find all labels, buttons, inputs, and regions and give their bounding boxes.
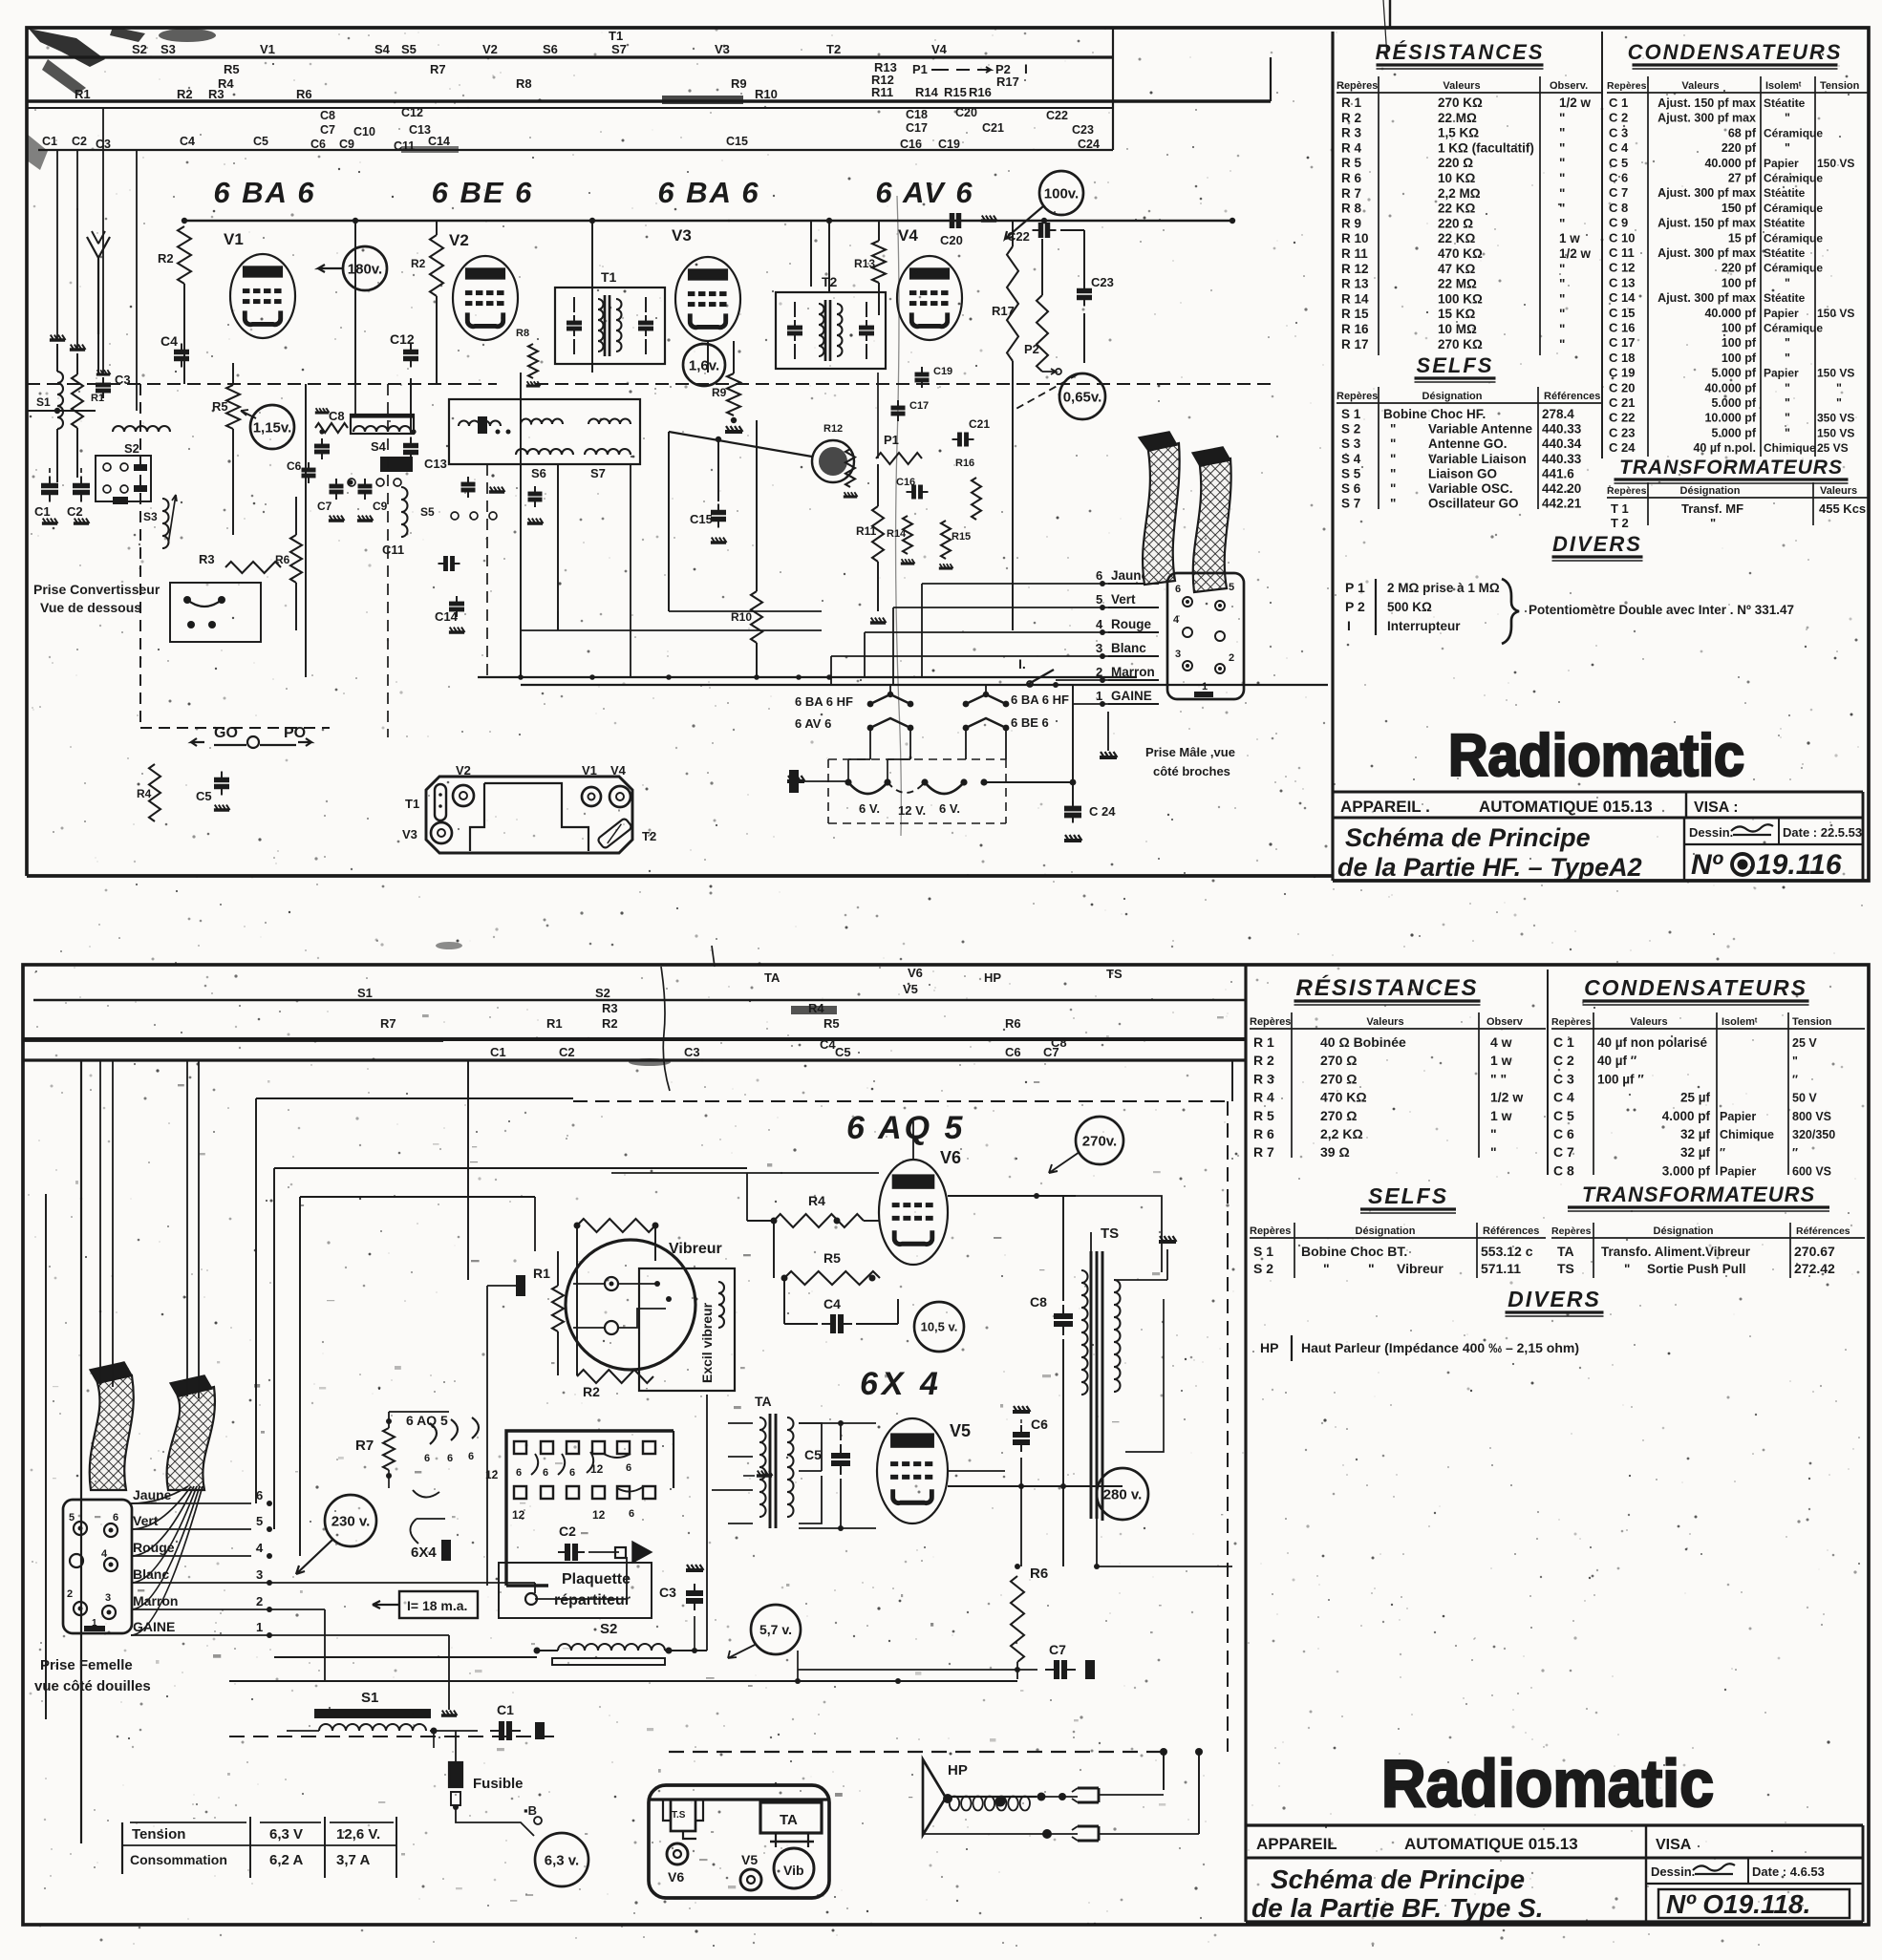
svg-text:40.000 pf: 40.000 pf	[1704, 157, 1756, 170]
svg-text:DIVERS: DIVERS	[1508, 1287, 1601, 1311]
svg-text:R1: R1	[546, 1016, 563, 1031]
svg-text:Dessin.: Dessin.	[1651, 1864, 1695, 1879]
svg-text:C2: C2	[67, 504, 83, 519]
svg-text:6 AV 6: 6 AV 6	[795, 716, 831, 731]
svg-text:T1: T1	[405, 797, 419, 811]
svg-text:Chimique: Chimique	[1764, 441, 1816, 455]
svg-text:": "	[1785, 336, 1790, 350]
svg-text:C19: C19	[933, 366, 952, 377]
svg-text:C1: C1	[34, 504, 51, 519]
svg-text:Marron: Marron	[1111, 665, 1155, 679]
svg-text:230 v.: 230 v.	[331, 1513, 371, 1529]
svg-text:27 pf: 27 pf	[1728, 172, 1757, 185]
svg-text:C4: C4	[160, 333, 178, 349]
svg-text:25 VS: 25 VS	[1817, 441, 1849, 455]
svg-text:Stéatite: Stéatite	[1764, 291, 1806, 305]
svg-text:600 VS: 600 VS	[1792, 1164, 1831, 1178]
svg-text:Valeurs: Valeurs	[1443, 80, 1480, 92]
svg-text:Valeurs: Valeurs	[1681, 80, 1719, 92]
svg-text:R 3: R 3	[1341, 126, 1362, 140]
svg-text:40 Ω Bobinée: 40 Ω Bobinée	[1320, 1034, 1406, 1050]
svg-text:6 BA 6: 6 BA 6	[213, 176, 315, 209]
svg-text:5.000 pf: 5.000 pf	[1711, 426, 1756, 439]
svg-text:S2: S2	[132, 42, 147, 56]
svg-text:R5: R5	[224, 62, 240, 76]
svg-text:150 VS: 150 VS	[1817, 367, 1854, 380]
svg-text:100v.: 100v.	[1044, 185, 1079, 202]
svg-text:S1: S1	[361, 1690, 378, 1706]
svg-text:C5: C5	[196, 789, 212, 803]
svg-text:1/2 w: 1/2 w	[1490, 1090, 1523, 1105]
svg-text:R 7: R 7	[1341, 186, 1361, 201]
svg-text:": "	[1836, 396, 1842, 410]
svg-text:R 6: R 6	[1341, 171, 1362, 185]
svg-text:T2: T2	[826, 42, 841, 56]
svg-text:270 Ω: 270 Ω	[1320, 1108, 1357, 1123]
svg-text:5.000 pf: 5.000 pf	[1711, 396, 1756, 410]
svg-text:I: I	[1024, 61, 1028, 76]
svg-text:C5: C5	[835, 1045, 851, 1059]
svg-text:V4: V4	[898, 226, 918, 245]
svg-text:R6: R6	[1030, 1566, 1048, 1582]
svg-text:Céramique: Céramique	[1764, 231, 1823, 245]
svg-text:40.000 pf: 40.000 pf	[1704, 307, 1756, 320]
svg-text:2: 2	[1229, 652, 1234, 664]
svg-text:R 13: R 13	[1341, 277, 1369, 291]
svg-text:V1: V1	[582, 763, 597, 778]
svg-text:": "	[1785, 396, 1790, 410]
svg-text:Oscillateur GO: Oscillateur GO	[1428, 497, 1519, 511]
svg-text:P1: P1	[912, 62, 928, 76]
svg-text:V3: V3	[402, 827, 417, 842]
svg-text:": "	[1390, 481, 1396, 496]
svg-text:Radiomatic: Radiomatic	[1448, 723, 1744, 789]
svg-text:R 1: R 1	[1341, 96, 1362, 110]
svg-text:C8: C8	[1030, 1294, 1047, 1310]
svg-text:15 KΩ: 15 KΩ	[1438, 307, 1476, 321]
svg-text:1: 1	[1096, 689, 1102, 703]
svg-text:553.12 c: 553.12 c	[1481, 1244, 1533, 1259]
svg-text:800 VS: 800 VS	[1792, 1110, 1831, 1123]
svg-text:220 Ω: 220 Ω	[1438, 216, 1473, 230]
svg-text:": "	[1792, 1055, 1798, 1068]
svg-text:280 v.: 280 v.	[1103, 1486, 1143, 1502]
svg-text:C24: C24	[1078, 138, 1100, 151]
svg-text:Observ: Observ	[1486, 1016, 1524, 1028]
svg-text:Blanc: Blanc	[1111, 641, 1146, 655]
svg-text:Valeurs: Valeurs	[1820, 485, 1857, 497]
svg-text:C 1: C 1	[1609, 96, 1628, 110]
svg-text:R15: R15	[944, 85, 967, 99]
svg-text:350 VS: 350 VS	[1817, 412, 1854, 425]
svg-text:440.33: 440.33	[1542, 422, 1582, 437]
svg-text:Repères: Repères	[1250, 1016, 1291, 1028]
svg-text:S 5: S 5	[1341, 466, 1361, 480]
svg-text:6: 6	[256, 1488, 263, 1502]
svg-text:4: 4	[256, 1541, 264, 1555]
svg-text:1,15v.: 1,15v.	[253, 419, 292, 436]
svg-text:Liaison GO: Liaison GO	[1428, 466, 1497, 480]
svg-text:1 w: 1 w	[1490, 1108, 1512, 1123]
svg-text:C9: C9	[373, 500, 388, 513]
svg-text:C21: C21	[982, 121, 1004, 135]
svg-text:1 KΩ (facultatif): 1 KΩ (facultatif)	[1438, 140, 1534, 155]
svg-text:R6: R6	[275, 553, 290, 566]
svg-text:Références: Références	[1544, 391, 1600, 402]
svg-text:19.116: 19.116	[1756, 849, 1842, 881]
svg-text:S7: S7	[590, 466, 606, 480]
svg-text:100 pf: 100 pf	[1722, 352, 1757, 365]
svg-text:1 w: 1 w	[1490, 1053, 1512, 1068]
svg-text:R 4: R 4	[1341, 140, 1362, 155]
svg-text:vue côté douilles: vue côté douilles	[34, 1678, 151, 1694]
svg-text:Variable OSC.: Variable OSC.	[1428, 481, 1513, 496]
svg-text:Prise Convertisseur: Prise Convertisseur	[33, 582, 160, 597]
svg-text:Date : 4.6.53: Date : 4.6.53	[1752, 1864, 1825, 1879]
svg-text:C 5: C 5	[1609, 156, 1628, 170]
svg-text:I= 18 m.a.: I= 18 m.a.	[407, 1598, 467, 1613]
svg-text:TA: TA	[764, 970, 781, 985]
svg-text:": "	[1624, 1262, 1630, 1276]
svg-text:S 3: S 3	[1341, 437, 1361, 451]
svg-text:C 6: C 6	[1553, 1126, 1574, 1141]
svg-text:C7: C7	[317, 500, 332, 513]
svg-text:5,7 v.: 5,7 v.	[759, 1622, 792, 1637]
svg-text:C19: C19	[938, 138, 960, 151]
svg-text:68 pf: 68 pf	[1728, 126, 1757, 139]
svg-text:C3: C3	[684, 1045, 700, 1059]
svg-text:C 10: C 10	[1609, 230, 1635, 245]
svg-text:270.67: 270.67	[1794, 1244, 1835, 1259]
svg-text:C 6: C 6	[1609, 171, 1628, 185]
svg-text:R1: R1	[91, 393, 104, 404]
svg-text:C20: C20	[955, 106, 977, 119]
svg-text:Schéma de Principe: Schéma de Principe	[1345, 823, 1591, 852]
svg-text:S1: S1	[36, 395, 51, 409]
svg-text:": "	[1390, 466, 1396, 480]
svg-text:3: 3	[1096, 641, 1102, 655]
svg-text:V6: V6	[668, 1869, 684, 1885]
svg-text:C12: C12	[390, 331, 415, 347]
svg-text:Céramique: Céramique	[1764, 322, 1823, 335]
svg-text:S5: S5	[420, 505, 435, 519]
svg-text:6 V.: 6 V.	[859, 801, 880, 816]
svg-text:": "	[1559, 337, 1565, 352]
svg-text:Repères: Repères	[1607, 485, 1647, 497]
svg-text:Désignation: Désignation	[1422, 391, 1483, 402]
svg-text:455 Kcs: 455 Kcs	[1819, 501, 1866, 516]
svg-text:R 15: R 15	[1341, 307, 1369, 321]
svg-text:C 21: C 21	[1609, 395, 1635, 410]
svg-text:V5: V5	[741, 1852, 758, 1867]
svg-text:TS: TS	[1101, 1225, 1119, 1242]
svg-text:Consommation: Consommation	[130, 1852, 227, 1867]
svg-text:C8: C8	[329, 409, 345, 423]
svg-text:2: 2	[256, 1594, 263, 1608]
svg-text:C5: C5	[804, 1447, 822, 1462]
svg-text:Schéma de Principe: Schéma de Principe	[1271, 1864, 1525, 1894]
svg-text:Repères: Repères	[1551, 1225, 1592, 1237]
svg-text:S4: S4	[374, 42, 391, 56]
svg-text:R 5: R 5	[1341, 156, 1362, 170]
svg-text:1 w: 1 w	[1559, 231, 1580, 245]
svg-text:P2: P2	[1024, 342, 1039, 356]
svg-text:440.33: 440.33	[1542, 452, 1582, 466]
svg-text:VISA :: VISA :	[1694, 799, 1739, 816]
svg-text:APPAREIL .: APPAREIL .	[1340, 798, 1430, 816]
svg-text:R 16: R 16	[1341, 322, 1369, 336]
svg-text:S6: S6	[543, 42, 558, 56]
svg-text:Bobine Choc BT.: Bobine Choc BT.	[1301, 1244, 1407, 1259]
svg-text:R3: R3	[602, 1001, 618, 1015]
svg-text:Références: Références	[1796, 1225, 1850, 1237]
svg-text:R2: R2	[158, 251, 174, 266]
svg-text:C 14: C 14	[1609, 290, 1636, 305]
svg-text:6: 6	[447, 1453, 453, 1464]
svg-text:S 4: S 4	[1341, 452, 1361, 466]
svg-text:100 KΩ: 100 KΩ	[1438, 291, 1483, 306]
svg-text:R4: R4	[808, 1193, 825, 1208]
svg-text:Repères: Repères	[1551, 1016, 1592, 1028]
svg-text:5: 5	[1096, 592, 1102, 607]
svg-text:1: 1	[256, 1620, 263, 1634]
svg-text:R1: R1	[533, 1266, 550, 1281]
svg-text:R 9: R 9	[1341, 216, 1361, 230]
svg-text:100 µf ″: 100 µf ″	[1597, 1072, 1644, 1086]
svg-text:C 24: C 24	[1609, 440, 1636, 455]
svg-text:R7: R7	[430, 62, 446, 76]
svg-text:Variable Antenne: Variable Antenne	[1428, 422, 1533, 437]
svg-text:6: 6	[1096, 568, 1102, 583]
svg-text:C 22: C 22	[1609, 411, 1635, 425]
svg-text:T.S: T.S	[672, 1810, 686, 1821]
svg-text:Valeurs: Valeurs	[1630, 1016, 1667, 1028]
svg-text:R16: R16	[969, 85, 992, 99]
svg-text:5.000 pf: 5.000 pf	[1711, 367, 1756, 380]
svg-text:C 3: C 3	[1553, 1071, 1574, 1086]
svg-text:TA: TA	[1557, 1244, 1574, 1259]
svg-text:R 2: R 2	[1253, 1053, 1274, 1068]
svg-text:25 µf: 25 µf	[1680, 1091, 1711, 1105]
svg-text:R15: R15	[952, 531, 971, 543]
svg-text:2 MΩ prise à 1 MΩ: 2 MΩ prise à 1 MΩ	[1387, 581, 1500, 595]
svg-text:C16: C16	[896, 477, 915, 488]
svg-text:Désignation: Désignation	[1680, 485, 1741, 497]
svg-text:S 6: S 6	[1341, 481, 1361, 496]
svg-text:6,3 V: 6,3 V	[269, 1826, 303, 1843]
svg-text:6 BA 6: 6 BA 6	[657, 176, 759, 209]
svg-text:Ajust. 150 pf max: Ajust. 150 pf max	[1657, 96, 1756, 110]
svg-text:R3: R3	[208, 87, 225, 101]
svg-text:C14: C14	[428, 135, 450, 148]
svg-text:Transfo. Aliment.Vibreur: Transfo. Aliment.Vibreur	[1601, 1245, 1751, 1259]
svg-text:": "	[1785, 412, 1790, 425]
svg-text:côté broches: côté broches	[1153, 764, 1230, 778]
svg-text:C12: C12	[401, 106, 423, 119]
svg-text:C 23: C 23	[1609, 425, 1635, 439]
svg-text:Céramique: Céramique	[1764, 202, 1823, 215]
svg-text:": "	[1390, 422, 1396, 437]
svg-text:1,5 KΩ: 1,5 KΩ	[1438, 126, 1479, 140]
svg-text:C22: C22	[1046, 109, 1068, 122]
svg-text:3: 3	[1175, 649, 1181, 660]
svg-text:12,6 V.: 12,6 V.	[336, 1826, 380, 1843]
svg-text:6: 6	[629, 1508, 634, 1520]
svg-text:": "	[1785, 426, 1790, 439]
svg-text:C7: C7	[1043, 1045, 1059, 1059]
svg-text:10 KΩ: 10 KΩ	[1438, 171, 1476, 185]
svg-text:TRANSFORMATEURS: TRANSFORMATEURS	[1619, 457, 1843, 479]
svg-text:C 2: C 2	[1553, 1053, 1574, 1068]
svg-text:R2: R2	[583, 1384, 600, 1399]
svg-text:S7: S7	[611, 42, 627, 56]
svg-text:100 pf: 100 pf	[1722, 322, 1757, 335]
svg-text:5: 5	[1229, 582, 1234, 593]
svg-text:C2: C2	[559, 1045, 575, 1059]
svg-text:C4: C4	[823, 1296, 841, 1311]
svg-text:″: ″	[1792, 1073, 1798, 1086]
svg-text:1/2 w: 1/2 w	[1559, 96, 1592, 110]
svg-text:C 13: C 13	[1609, 275, 1635, 289]
svg-text:P 2: P 2	[1345, 599, 1365, 614]
svg-text:Transf. MF: Transf. MF	[1681, 501, 1743, 516]
svg-text:1/2 w: 1/2 w	[1559, 246, 1592, 261]
svg-text:3: 3	[105, 1592, 111, 1604]
svg-text:Désignation: Désignation	[1356, 1225, 1416, 1237]
svg-text:32 µf: 32 µf	[1680, 1145, 1711, 1160]
svg-text:V2: V2	[456, 763, 471, 778]
svg-text:C 9: C 9	[1609, 216, 1628, 230]
svg-text:6X4: 6X4	[411, 1545, 437, 1561]
svg-text:C 5: C 5	[1553, 1108, 1574, 1123]
svg-text:": "	[1559, 322, 1565, 336]
svg-text:AUTOMATIQUE 015.13: AUTOMATIQUE 015.13	[1479, 798, 1653, 816]
svg-text:C17: C17	[906, 121, 928, 135]
svg-text:": "	[1785, 112, 1790, 125]
svg-text:C15: C15	[690, 512, 713, 526]
svg-text:442.21: 442.21	[1542, 497, 1582, 511]
svg-text:R17: R17	[996, 75, 1019, 89]
svg-text:Chimique: Chimique	[1720, 1128, 1774, 1141]
svg-text:DIVERS: DIVERS	[1552, 532, 1642, 556]
svg-text:R4: R4	[137, 787, 152, 800]
svg-text:": "	[1559, 291, 1565, 306]
svg-text:": "	[1559, 307, 1565, 321]
svg-text:150 VS: 150 VS	[1817, 157, 1854, 170]
svg-text:C10: C10	[353, 125, 375, 138]
svg-text:Dessin.: Dessin.	[1689, 825, 1733, 840]
svg-text:C23: C23	[1091, 275, 1114, 289]
svg-text:Plaquette: Plaquette	[562, 1571, 631, 1587]
svg-text:R 2: R 2	[1341, 111, 1361, 125]
svg-text:": "	[1559, 186, 1565, 201]
svg-text:C 8: C 8	[1553, 1162, 1574, 1178]
svg-text:150 VS: 150 VS	[1817, 426, 1854, 439]
svg-text:6 BA 6 HF: 6 BA 6 HF	[1011, 692, 1069, 707]
svg-text:Tension: Tension	[1820, 80, 1860, 92]
svg-text:GO: GO	[214, 725, 238, 741]
svg-text:APPAREIL: APPAREIL	[1256, 1835, 1337, 1853]
svg-text:C22: C22	[1007, 229, 1030, 244]
svg-text:Stéatite: Stéatite	[1764, 246, 1806, 260]
svg-text:6 AQ 5: 6 AQ 5	[406, 1413, 448, 1428]
svg-text:C13: C13	[424, 457, 447, 471]
svg-text:270 Ω: 270 Ω	[1320, 1071, 1357, 1086]
svg-text:C14: C14	[435, 609, 459, 624]
svg-text:Papier: Papier	[1764, 157, 1799, 170]
svg-text:Antenne GO.: Antenne GO.	[1428, 437, 1508, 451]
svg-text:6: 6	[626, 1462, 631, 1474]
svg-text:S2: S2	[124, 441, 139, 456]
svg-text:": "	[1323, 1261, 1330, 1276]
svg-text:150 pf: 150 pf	[1722, 202, 1757, 215]
svg-text:Ajust. 300 pf max: Ajust. 300 pf max	[1657, 291, 1756, 305]
svg-text:C4: C4	[820, 1037, 836, 1052]
svg-text:RÉSISTANCES: RÉSISTANCES	[1296, 974, 1479, 1001]
svg-text:2,2 KΩ: 2,2 KΩ	[1320, 1126, 1363, 1141]
svg-text:C1: C1	[490, 1045, 506, 1059]
svg-text:R10: R10	[755, 87, 778, 101]
svg-text:22 MΩ: 22 MΩ	[1438, 277, 1477, 291]
svg-text:6: 6	[424, 1453, 430, 1464]
svg-text:220 Ω: 220 Ω	[1438, 156, 1473, 170]
svg-text:V3: V3	[672, 226, 692, 245]
svg-text:Blanc: Blanc	[133, 1566, 169, 1582]
svg-text:": "	[1490, 1126, 1497, 1141]
svg-text:Fusible: Fusible	[473, 1776, 524, 1792]
svg-text:Radiomatic: Radiomatic	[1381, 1746, 1714, 1821]
svg-text:Nº O19.118.: Nº O19.118.	[1666, 1889, 1810, 1919]
svg-text:C 1: C 1	[1553, 1034, 1574, 1050]
svg-text:▪B: ▪B	[524, 1803, 537, 1818]
svg-text:Ajust. 150 pf max: Ajust. 150 pf max	[1657, 217, 1756, 230]
svg-text:HP: HP	[984, 970, 1001, 985]
svg-text:Date : 22.5.53: Date : 22.5.53	[1783, 825, 1862, 840]
svg-text:Jaune: Jaune	[133, 1487, 172, 1502]
svg-text:Isolemᵗ: Isolemᵗ	[1765, 80, 1802, 92]
svg-text:6: 6	[516, 1467, 522, 1479]
svg-text:C2: C2	[72, 135, 87, 148]
svg-text:R11: R11	[856, 524, 877, 538]
svg-text:R 3: R 3	[1253, 1071, 1274, 1086]
svg-text:Repères: Repères	[1607, 80, 1647, 92]
svg-text:R6: R6	[296, 87, 312, 101]
svg-text:12 V.: 12 V.	[898, 803, 926, 818]
svg-text:Papier: Papier	[1764, 367, 1799, 380]
svg-text:3,7 A: 3,7 A	[336, 1852, 370, 1868]
svg-text:Isolemᵗ: Isolemᵗ	[1722, 1016, 1758, 1028]
svg-text:": "	[1559, 140, 1565, 155]
svg-text:R8: R8	[516, 328, 529, 339]
svg-text:220 pf: 220 pf	[1722, 262, 1757, 275]
svg-text:": "	[1490, 1144, 1497, 1160]
svg-text:6: 6	[569, 1467, 575, 1479]
svg-text:Prise Mâle ,vue: Prise Mâle ,vue	[1145, 745, 1235, 759]
svg-text:C2: C2	[559, 1523, 576, 1539]
svg-text:C4: C4	[180, 135, 195, 148]
svg-text:Variable Liaison: Variable Liaison	[1428, 452, 1527, 466]
svg-text:C 16: C 16	[1609, 321, 1635, 335]
svg-text:C 4: C 4	[1609, 140, 1629, 155]
svg-text:C16: C16	[900, 138, 922, 151]
svg-text:R 10: R 10	[1341, 231, 1369, 245]
svg-text:6 BE 6: 6 BE 6	[1011, 715, 1049, 730]
svg-text:": "	[1559, 111, 1565, 125]
svg-text:Bobine Choc HF.: Bobine Choc HF.	[1383, 407, 1486, 421]
svg-text:5: 5	[256, 1514, 263, 1528]
svg-text:SELFS: SELFS	[1368, 1183, 1448, 1208]
svg-text:P2: P2	[995, 62, 1011, 76]
